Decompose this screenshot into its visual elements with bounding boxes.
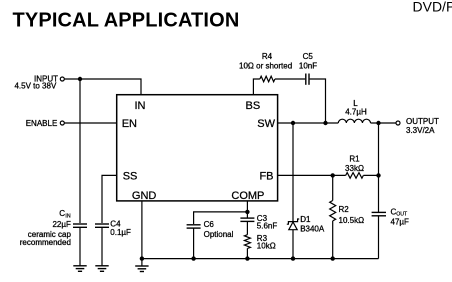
node D1-rail [291, 256, 295, 260]
svg-text:10Ω or shorted: 10Ω or shorted [239, 61, 292, 70]
node FB-R2 [331, 173, 335, 177]
wire COMP pin down [246, 201, 248, 218]
node R3-rail [245, 256, 249, 260]
capacitor CIN [73, 224, 87, 266]
svg-text:4.5V to 38V: 4.5V to 38V [14, 82, 56, 91]
svg-text:SS: SS [123, 170, 138, 182]
node COMP-C6 [245, 210, 249, 214]
svg-text:22µF: 22µF [52, 220, 71, 229]
node input junction [78, 77, 82, 81]
svg-text:10.5kΩ: 10.5kΩ [339, 216, 365, 225]
svg-text:IN: IN [65, 213, 70, 219]
svg-text:3.3V/2A: 3.3V/2A [406, 126, 435, 135]
capacitor C5 [306, 74, 309, 85]
svg-text:ENABLE: ENABLE [26, 119, 58, 128]
svg-text:10kΩ: 10kΩ [257, 242, 276, 251]
value label R2 [339, 205, 365, 225]
node SW-D1 [291, 121, 295, 125]
wire input junction down to CIN [79, 79, 81, 223]
value label C5 [299, 52, 317, 70]
value label C3 [257, 214, 278, 231]
svg-text:Optional: Optional [204, 230, 234, 239]
node SW-C5 [323, 121, 327, 125]
wire SW to output [278, 122, 396, 124]
svg-text:DVD/P: DVD/P [413, 0, 452, 15]
wire FB [278, 174, 379, 176]
svg-text:C6: C6 [204, 220, 215, 229]
value label R1 [345, 154, 364, 173]
svg-text:C4: C4 [110, 219, 121, 228]
node GND-rail [140, 256, 144, 260]
diode D1 [287, 219, 299, 259]
svg-text:BS: BS [246, 100, 261, 112]
enable terminal [26, 119, 65, 128]
wire COUT branch [378, 123, 380, 212]
svg-text:C: C [59, 209, 65, 218]
wire enable to EN [65, 122, 117, 124]
svg-text:33kΩ: 33kΩ [345, 164, 364, 173]
node L-COUT [376, 121, 380, 125]
svg-text:C5: C5 [303, 52, 314, 61]
op-amp U1 regulator box [117, 95, 278, 201]
capacitor C6 [187, 225, 201, 259]
svg-text:R1: R1 [349, 154, 360, 163]
value label COUT [391, 207, 410, 226]
wire BS to R4 [253, 79, 260, 95]
value label C4 [110, 219, 131, 237]
svg-text:COMP: COMP [231, 190, 264, 202]
svg-text:4.7µH: 4.7µH [345, 107, 367, 116]
svg-text:B340A: B340A [300, 224, 325, 233]
ground (C4) [95, 266, 108, 272]
wire SS to C4 [102, 175, 117, 223]
value label D1 [300, 215, 325, 233]
svg-text:EN: EN [122, 118, 137, 130]
value label R3 [257, 234, 276, 251]
resistor R2 [330, 175, 336, 258]
wire R4 to C5 [275, 78, 305, 80]
resistor R1 [346, 173, 364, 179]
wire input to IN [65, 79, 142, 95]
svg-text:SW: SW [257, 118, 275, 130]
svg-text:recommended: recommended [20, 238, 71, 247]
wire D1 branch [292, 123, 294, 221]
resistor R4 [260, 76, 275, 82]
value label C6 [204, 220, 234, 239]
svg-text:D1: D1 [300, 215, 311, 224]
svg-text:0.1µF: 0.1µF [110, 228, 131, 237]
wire C5 to SW node [310, 79, 326, 123]
capacitor COUT [372, 212, 386, 258]
capacitor C3 [240, 218, 254, 235]
value label L [345, 99, 367, 116]
svg-text:GND: GND [132, 190, 157, 202]
wire R3 to rail [246, 248, 248, 258]
output terminal [396, 117, 439, 135]
svg-text:5.6nF: 5.6nF [257, 222, 278, 231]
svg-text:OUTPUT: OUTPUT [406, 117, 439, 126]
svg-text:47µF: 47µF [391, 218, 410, 227]
value label R4 [239, 52, 292, 70]
wire GND pin down [141, 201, 143, 259]
value label CIN [20, 209, 72, 247]
svg-text:IN: IN [135, 100, 146, 112]
node C6-rail [191, 256, 195, 260]
svg-text:10nF: 10nF [299, 61, 317, 70]
resistor R3 [244, 235, 250, 249]
ground rail wire [142, 258, 379, 260]
wire COMP to C6 [194, 212, 248, 224]
ground (main rail) [135, 259, 148, 272]
svg-text:TYPICAL APPLICATION: TYPICAL APPLICATION [13, 10, 240, 32]
input terminal [14, 74, 64, 90]
capacitor C4 [95, 224, 109, 266]
svg-text:FB: FB [259, 170, 273, 182]
svg-text:R2: R2 [339, 205, 350, 214]
node R2-rail [331, 256, 335, 260]
node FB-COUT [376, 173, 380, 177]
svg-text:R4: R4 [262, 52, 273, 61]
ground (CIN) [73, 266, 86, 272]
inductor L [338, 119, 370, 123]
